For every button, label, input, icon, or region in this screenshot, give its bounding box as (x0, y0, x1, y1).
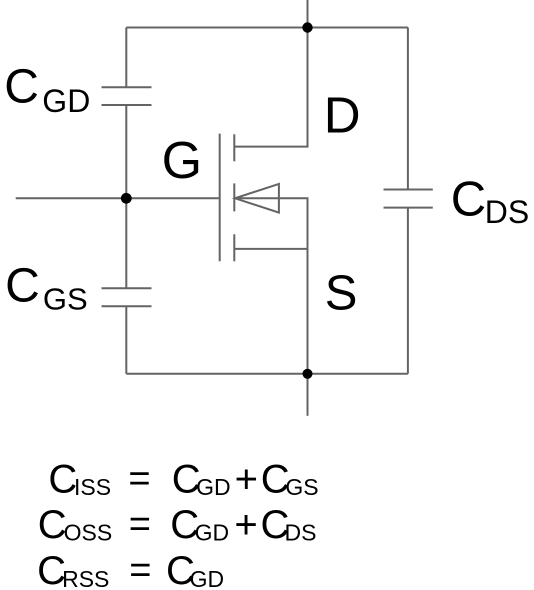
wire: left rail upper (top rail to C_GD) (125, 28, 127, 88)
wire: right rail lower (C_DS to bottom rail) (407, 208, 409, 374)
wire: gate node to MOSFET gate (126, 197, 219, 199)
wire: body lead to source node (234, 198, 307, 373)
svg-text:S: S (325, 266, 358, 320)
svg-text:COSS=CGD+CDS: COSS=CGD+CDS (38, 503, 317, 547)
capacitor C_DS (384, 190, 433, 208)
svg-text:G: G (162, 132, 202, 190)
wire: drain lead to top node (234, 28, 307, 147)
svg-text:D: D (324, 87, 361, 144)
svg-text:CRSS=CGD: CRSS=CGD (37, 549, 224, 590)
transistor Q1 channel drain segment (233, 134, 235, 161)
svg-text:CGD: CGD (4, 61, 90, 119)
svg-text:CDS: CDS (451, 173, 530, 230)
wire: bottom rail (126, 373, 408, 375)
body diode arrow (235, 184, 279, 213)
svg-text:CGS: CGS (5, 259, 88, 316)
node D junction dot (302, 22, 312, 32)
wire: source lead (234, 248, 307, 250)
capacitor C_GS (102, 288, 152, 306)
wire: C_GS to bottom rail (125, 306, 127, 374)
node G junction dot (121, 193, 132, 204)
wire: gate node to C_GS (125, 198, 127, 288)
transistor Q1 gate electrode (219, 134, 221, 262)
wire: gate input lead (16, 197, 127, 199)
wire: top drain stub (307, 0, 309, 28)
transistor Q1 channel source segment (233, 234, 235, 261)
transistor Q1 channel body segment (233, 183, 235, 211)
node S junction dot (303, 369, 313, 379)
capacitor C_GD (102, 87, 152, 105)
wire: right rail upper (top rail to C_DS) (407, 28, 409, 190)
wire: bottom source stub (307, 374, 309, 416)
wire: top rail (126, 27, 408, 29)
svg-text:CISS=CGD+CGS: CISS=CGD+CGS (48, 457, 318, 501)
wire: C_GD to gate node (125, 105, 127, 198)
